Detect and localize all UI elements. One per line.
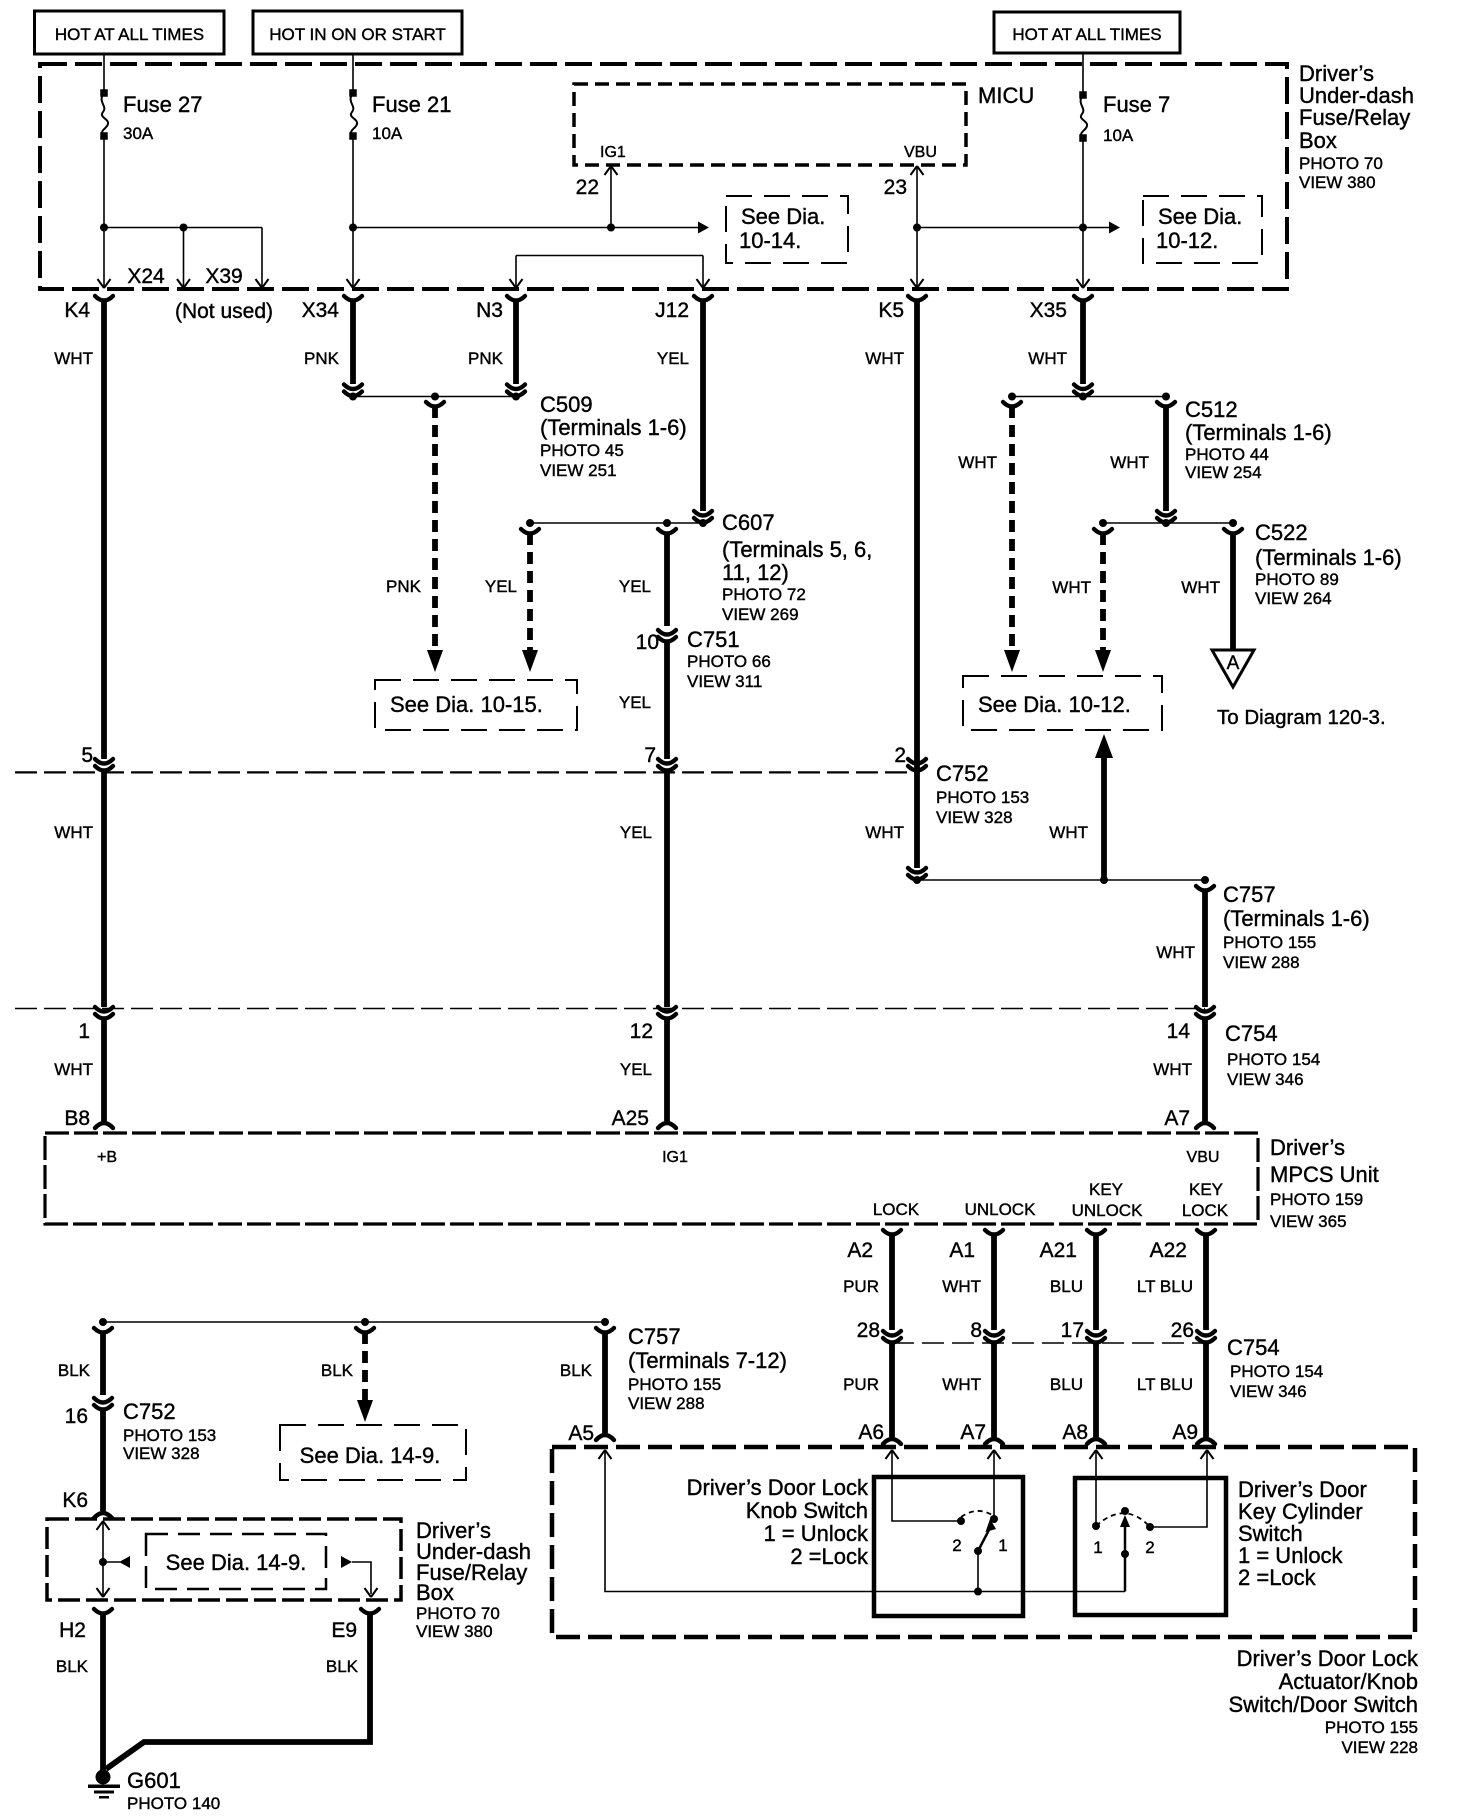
connector C754 pin 26 (1171, 1319, 1215, 1343)
svg-text:LOCK: LOCK (873, 1200, 920, 1219)
wire A25 trunk YEL (lower) (612, 1018, 676, 1130)
knob switch box (874, 1477, 1023, 1616)
svg-text:A2: A2 (847, 1239, 873, 1262)
svg-text:Driver’s Door Lock: Driver’s Door Lock (1237, 1646, 1419, 1671)
svg-text:1 = Unlock: 1 = Unlock (763, 1521, 869, 1546)
wire bridge N3-J12 (516, 256, 703, 287)
svg-text:PHOTO 70: PHOTO 70 (1299, 154, 1383, 173)
Driver's Door Lock Actuator box (dashed) (552, 1447, 1415, 1637)
svg-text:A22: A22 (1150, 1239, 1187, 1262)
fuse F27 (Fuse 27 30A) (100, 89, 202, 143)
svg-text:A6: A6 (858, 1421, 884, 1444)
wire PUR to A6 (843, 1342, 901, 1444)
svg-text:C607: C607 (722, 510, 775, 535)
connector C752 pin 5 (81, 744, 113, 771)
label: To Diagram 120-3. (1217, 706, 1386, 729)
svg-text:2: 2 (1145, 1538, 1154, 1557)
label: G601 PHOTO 140 (127, 1768, 220, 1813)
label: LOCK (873, 1200, 920, 1219)
off-page reference triangle A (1212, 650, 1254, 687)
svg-text:14: 14 (1167, 1020, 1191, 1043)
svg-text:PNK: PNK (304, 349, 340, 368)
svg-text:5: 5 (81, 744, 93, 767)
arrow from See Dia 14-9 to K6 wire (103, 1556, 130, 1568)
svg-text:A1: A1 (949, 1239, 975, 1262)
wire C512 to C522 (WHT) (1110, 406, 1175, 523)
svg-text:IG1: IG1 (600, 144, 626, 161)
wire J12 trunk YEL (657, 300, 712, 523)
label: Driver's Door Lock Actuator/Knob Switch/Door Switch (1228, 1646, 1419, 1757)
arrow into See Dia. 14-9 (upper) (357, 1400, 373, 1422)
svg-text:Box: Box (1299, 128, 1337, 153)
connector C754 line (lower) (892, 1342, 1206, 1344)
key switch throw arc (1096, 1513, 1150, 1527)
label: 22 (576, 176, 599, 199)
svg-text:C512: C512 (1185, 397, 1238, 422)
svg-text:B8: B8 (64, 1107, 90, 1130)
wire H2 BLK to ground (56, 1613, 103, 1770)
power source label: HOT AT ALL TIMES (left) (35, 11, 225, 54)
svg-text:A7: A7 (1164, 1107, 1190, 1130)
pin E9 (331, 1609, 379, 1642)
key cylinder switch box (1075, 1478, 1226, 1615)
svg-text:C752: C752 (123, 1399, 176, 1424)
svg-text:WHT: WHT (54, 349, 93, 368)
svg-text:See Dia.: See Dia. (1158, 204, 1242, 229)
svg-text:28: 28 (857, 1319, 880, 1342)
wire X34 trunk PNK (304, 300, 362, 396)
svg-text:Actuator/Knob: Actuator/Knob (1279, 1669, 1418, 1694)
wire K4-B8 trunk WHT (mid) (54, 772, 104, 1007)
connector C754 pin 8 (970, 1319, 1003, 1343)
svg-text:VBU: VBU (904, 144, 937, 161)
wire YEL trunk (mid) (620, 772, 667, 1007)
wire VBU to K5 (pin 23) (911, 166, 924, 288)
wire from HOT AT ALL TIMES to fuse 7 (1082, 53, 1084, 95)
svg-text:8: 8 (970, 1319, 982, 1342)
svg-text:WHT: WHT (54, 823, 93, 842)
wire E9 BLK to ground (106, 1613, 370, 1769)
svg-text:VIEW 328: VIEW 328 (936, 808, 1013, 827)
fuse F7 (Fuse 7 10A) (1079, 91, 1170, 145)
svg-text:YEL: YEL (620, 823, 652, 842)
label: C607 (Terminals 5,6,11,12) PHOTO 72 VIEW 269 (722, 510, 872, 624)
connector C509 junction line (349, 393, 520, 407)
arrow into See Dia. 10-15 (left) (427, 650, 443, 672)
svg-text:WHT: WHT (942, 1375, 981, 1394)
svg-text:WHT: WHT (958, 453, 997, 472)
See Dia. 10-12. box (top) (1143, 196, 1262, 263)
svg-text:C522: C522 (1255, 520, 1308, 545)
pin A2 (MPCS) (847, 1230, 901, 1262)
svg-text:A5: A5 (568, 1422, 594, 1445)
svg-text:C757: C757 (628, 1324, 681, 1349)
wire A22 LT BLU upper (1137, 1234, 1206, 1330)
svg-text:LT BLU: LT BLU (1137, 1375, 1193, 1394)
label: UNLOCK (965, 1200, 1037, 1219)
svg-text:PHOTO 154: PHOTO 154 (1227, 1050, 1320, 1069)
svg-text:16: 16 (65, 1405, 88, 1428)
label: C757 (Terminals 1-6) PHOTO 155 VIEW 288 (1223, 882, 1370, 972)
label: C757 (Terminals 7-12) PHOTO 155 VIEW 288 (628, 1324, 787, 1413)
svg-text:PNK: PNK (468, 349, 504, 368)
svg-text:PHOTO 66: PHOTO 66 (687, 652, 771, 671)
svg-text:PHOTO 155: PHOTO 155 (1223, 933, 1316, 952)
svg-text:VIEW 251: VIEW 251 (540, 461, 617, 480)
door switch wire A5 internal (599, 1450, 1126, 1592)
arrow from See Dia 14-9 to E9 (341, 1556, 378, 1597)
connector C751 (pin 10) (636, 630, 676, 654)
arrow onto X35 (1077, 279, 1090, 288)
svg-text:2: 2 (894, 744, 906, 767)
svg-text:Fuse 7: Fuse 7 (1103, 92, 1170, 117)
svg-text:IG1: IG1 (662, 1149, 688, 1166)
svg-text:PHOTO 72: PHOTO 72 (722, 585, 806, 604)
power source label: HOT AT ALL TIMES (right) (994, 12, 1180, 53)
power source label: HOT IN ON OR START (253, 11, 462, 54)
wire K5 to C757 WHT (865, 823, 904, 842)
wire K5 junction to See Dia. 10-12 (917, 227, 1110, 229)
svg-text:BLK: BLK (56, 1657, 89, 1676)
pin H2 (59, 1609, 112, 1642)
connector C754 pin 14 (1167, 1007, 1214, 1043)
svg-text:See Dia. 14-9.: See Dia. 14-9. (166, 1550, 307, 1575)
wire C757 to C754 WHT (1156, 890, 1205, 1007)
svg-text:BLK: BLK (560, 1361, 593, 1380)
arrow onto X34 (347, 279, 360, 288)
label: 23 (884, 176, 907, 199)
svg-text:See Dia. 14-9.: See Dia. 14-9. (300, 1443, 441, 1468)
wire C512 to See Dia. 10-12 (WHT dashed) (958, 406, 1012, 650)
svg-text:VBU: VBU (1187, 1149, 1220, 1166)
label: IG1 pin (600, 144, 626, 161)
svg-text:VIEW 288: VIEW 288 (628, 1394, 705, 1413)
pin A1 (MPCS) (949, 1230, 1003, 1262)
svg-text:A8: A8 (1062, 1421, 1088, 1444)
svg-text:Fuse/Relay: Fuse/Relay (1299, 105, 1410, 130)
svg-text:WHT: WHT (942, 1277, 981, 1296)
svg-text:Knob Switch: Knob Switch (746, 1498, 868, 1523)
svg-text:YEL: YEL (620, 1060, 652, 1079)
connector C754 pin 17 (1061, 1319, 1105, 1343)
connector C512 junction line (1003, 393, 1175, 407)
svg-text:VIEW 328: VIEW 328 (123, 1444, 200, 1463)
knob switch throw arc (961, 1511, 992, 1517)
wire C751 to C752 YEL (619, 641, 667, 759)
Driver's MPCS Unit box (dashed) (45, 1133, 1258, 1224)
See Dia. 14-9. box (upper) (280, 1425, 466, 1480)
label: C512 (Terminals 1-6) PHOTO 44 VIEW 254 (1185, 397, 1332, 482)
wire BLK to C752-16 (58, 1328, 112, 1395)
label: VBU pin (904, 144, 937, 161)
svg-text:LOCK: LOCK (1182, 1201, 1229, 1220)
arrow A9 internal (1152, 1450, 1214, 1527)
svg-text:1: 1 (998, 1536, 1007, 1555)
arrow onto N3 (510, 279, 523, 288)
svg-text:WHT: WHT (1052, 578, 1091, 597)
key switch contacts (1092, 1522, 1155, 1557)
svg-text:VIEW 365: VIEW 365 (1270, 1212, 1347, 1231)
svg-text:(Not used): (Not used) (175, 300, 273, 323)
wire BLK to See Dia. 14-9 (dashed) (321, 1328, 374, 1400)
svg-text:PHOTO 44: PHOTO 44 (1185, 445, 1269, 464)
wire IG1 arrow (pin 22) (605, 166, 618, 228)
svg-text:7: 7 (644, 744, 656, 767)
svg-text:A7: A7 (960, 1421, 986, 1444)
wire fuse 27 to K4/X24/X39 branch (100, 136, 262, 286)
label: Driver's Door Lock Knob Switch (687, 1475, 869, 1569)
wire N3 trunk PNK (468, 300, 525, 396)
svg-text:YEL: YEL (619, 577, 651, 596)
svg-text:HOT IN ON OR START: HOT IN ON OR START (269, 25, 446, 44)
label: Driver's Under-dash Fuse/Relay Box (1299, 61, 1414, 192)
label: Driver's Under-dash Fuse/Relay Box PHOTO 70 VIEW 380 (lower) (416, 1518, 531, 1641)
label: C751 PHOTO 66 VIEW 311 (687, 627, 771, 691)
See Dia. 14-9. box (inside fuse box) (146, 1534, 326, 1589)
svg-text:BLU: BLU (1050, 1277, 1083, 1296)
label: IG1 pin (MPCS) (662, 1149, 688, 1166)
svg-text:(Terminals 5, 6,: (Terminals 5, 6, (722, 537, 872, 562)
svg-text:YEL: YEL (657, 349, 689, 368)
ground G601 (88, 1770, 120, 1799)
connector C752 divider line (15, 771, 917, 773)
knob switch contacts (952, 1515, 1007, 1555)
svg-text:(Terminals 1-6): (Terminals 1-6) (540, 415, 687, 440)
svg-text:WHT: WHT (1049, 823, 1088, 842)
svg-text:PHOTO 153: PHOTO 153 (123, 1426, 216, 1445)
label: C754 PHOTO 154 VIEW 346 (divider) (1225, 1021, 1320, 1089)
svg-text:2 =Lock: 2 =Lock (790, 1544, 869, 1569)
svg-text:YEL: YEL (619, 693, 651, 712)
pin K4 (64, 296, 113, 322)
wire BLK to A5 (560, 1328, 614, 1445)
svg-text:Driver’s Door Lock: Driver’s Door Lock (687, 1475, 869, 1500)
svg-text:HOT AT ALL TIMES: HOT AT ALL TIMES (55, 25, 204, 44)
svg-text:KEY: KEY (1189, 1180, 1223, 1199)
wire K5 trunk WHT (865, 300, 926, 880)
svg-text:VIEW 380: VIEW 380 (1299, 173, 1376, 192)
svg-text:BLK: BLK (326, 1657, 359, 1676)
svg-text:Driver’s: Driver’s (1270, 1135, 1345, 1160)
See Dia. 10-14. box (726, 196, 848, 263)
svg-text:VIEW 346: VIEW 346 (1230, 1382, 1307, 1401)
svg-text:Fuse 27: Fuse 27 (123, 92, 203, 117)
svg-text:C754: C754 (1227, 1335, 1280, 1360)
connector C757 junction line (913, 876, 1214, 891)
svg-text:1: 1 (1093, 1538, 1102, 1557)
svg-text:Switch/Door Switch: Switch/Door Switch (1228, 1692, 1418, 1717)
connector C752 pin 2 (894, 744, 926, 771)
svg-text:N3: N3 (476, 299, 503, 322)
wire LT BLU to A9 (1137, 1342, 1215, 1444)
svg-text:WHT: WHT (54, 1060, 93, 1079)
arrow A6 internal (886, 1450, 960, 1521)
svg-text:PHOTO 155: PHOTO 155 (628, 1375, 721, 1394)
svg-text:22: 22 (576, 176, 599, 199)
wire fuse 21 to X34 and IG1 feed (349, 136, 702, 286)
arrow into See Dia. 10-12 (left) (1004, 650, 1020, 672)
label: VBU pin (MPCS) (1187, 1149, 1220, 1166)
knob switch common wire (974, 1551, 982, 1596)
label: X24 (127, 265, 165, 288)
svg-text:A21: A21 (1040, 1239, 1077, 1262)
svg-text:17: 17 (1061, 1319, 1084, 1342)
wire C509 to See Dia. 10-15 (PNK dashed) (386, 406, 435, 650)
label: C752 PHOTO 153 VIEW 328 (pin 16) (123, 1399, 216, 1463)
label: C509 (Terminals 1-6) PHOTO 45 VIEW 251 (540, 392, 687, 480)
svg-text:PHOTO 45: PHOTO 45 (540, 441, 624, 460)
wire C607 to See Dia. 10-15 (YEL dashed) (485, 533, 530, 650)
svg-text:WHT: WHT (1181, 578, 1220, 597)
svg-text:(Terminals 1-6): (Terminals 1-6) (1185, 420, 1332, 445)
svg-text:VIEW 228: VIEW 228 (1341, 1738, 1418, 1757)
arrow onto X24 (177, 279, 190, 288)
wire K6 BLK (62, 1409, 112, 1518)
label: (Not used) (175, 300, 273, 323)
svg-text:(Terminals 1-6): (Terminals 1-6) (1255, 545, 1402, 570)
svg-text:C754: C754 (1225, 1021, 1278, 1046)
svg-text:BLK: BLK (58, 1361, 91, 1380)
svg-text:VIEW 264: VIEW 264 (1255, 589, 1332, 608)
svg-text:PUR: PUR (843, 1375, 879, 1394)
pin X34 (302, 296, 362, 322)
connector C752 pin 7 (644, 744, 676, 771)
svg-text:2: 2 (952, 1536, 961, 1555)
label: C754 PHOTO 154 VIEW 346 (lower) (1227, 1335, 1323, 1401)
wire C522 to reference A (WHT) (1181, 533, 1233, 650)
wire K4 trunk WHT (54, 300, 104, 759)
wire inside fuse box K6-H2 (97, 1521, 110, 1597)
svg-text:C751: C751 (687, 627, 740, 652)
arrow into See Dia. 10-12 (right) (1095, 650, 1111, 672)
svg-text:1: 1 (78, 1020, 90, 1043)
svg-text:C509: C509 (540, 392, 593, 417)
connector C607 junction line (521, 519, 707, 534)
svg-text:Box: Box (416, 1580, 454, 1605)
svg-text:See Dia. 10-15.: See Dia. 10-15. (390, 692, 543, 717)
pin N3 (476, 296, 525, 322)
svg-text:To Diagram 120-3.: To Diagram 120-3. (1217, 706, 1386, 729)
svg-text:X24: X24 (127, 265, 165, 288)
svg-text:H2: H2 (59, 1619, 86, 1642)
wire up-arrow into See Dia. 10-12 (WHT) (1049, 734, 1113, 880)
arrow into See Dia. 10-14 (698, 222, 709, 234)
svg-text:PHOTO 159: PHOTO 159 (1270, 1190, 1363, 1209)
svg-text:PHOTO 154: PHOTO 154 (1230, 1362, 1323, 1381)
svg-text:E9: E9 (331, 1619, 357, 1642)
svg-text:LT BLU: LT BLU (1137, 1277, 1193, 1296)
wire from HOT IN ON OR START to fuse 21 (352, 54, 354, 93)
svg-text:Fuse 21: Fuse 21 (372, 92, 452, 117)
svg-text:WHT: WHT (1110, 453, 1149, 472)
svg-text:BLU: BLU (1050, 1375, 1083, 1394)
svg-text:10-14.: 10-14. (739, 228, 801, 253)
wire fuse 7 to X35 (1079, 138, 1087, 286)
wire ground bus line (99, 1318, 609, 1326)
svg-text:PHOTO 155: PHOTO 155 (1325, 1718, 1418, 1737)
wire A2 PUR upper (843, 1234, 892, 1330)
pin J12 (655, 296, 712, 322)
svg-text:K6: K6 (62, 1489, 88, 1512)
svg-text:PHOTO 70: PHOTO 70 (416, 1604, 500, 1623)
arrow onto X39 (256, 279, 269, 288)
svg-text:UNLOCK: UNLOCK (1072, 1201, 1144, 1220)
svg-text:12: 12 (630, 1020, 653, 1043)
label: Driver's Door Key Cylinder Switch (1238, 1477, 1367, 1590)
knob switch lever (974, 1519, 996, 1555)
svg-text:K5: K5 (878, 299, 904, 322)
Driver's Under-dash Fuse/Relay Box 2 (dashed) (47, 1519, 401, 1600)
connector C754 pin 28 (857, 1319, 901, 1343)
svg-text:MPCS Unit: MPCS Unit (1270, 1162, 1379, 1187)
label: C752 PHOTO 153 VIEW 328 (divider) (936, 761, 1029, 827)
wire A7 trunk WHT (lower) (1153, 1018, 1214, 1130)
svg-text:MICU: MICU (978, 83, 1034, 108)
svg-text:HOT AT ALL TIMES: HOT AT ALL TIMES (1012, 25, 1161, 44)
svg-text:10A: 10A (372, 124, 403, 143)
label: X39 (205, 265, 242, 288)
svg-text:A25: A25 (612, 1107, 649, 1130)
svg-text:PNK: PNK (386, 577, 422, 596)
wire C607 to C751 YEL trunk (619, 533, 667, 626)
wire X35 trunk WHT (1028, 300, 1092, 396)
See Dia. 10-15. box (375, 680, 577, 730)
label: KEY UNLOCK (1072, 1180, 1144, 1220)
svg-text:WHT: WHT (1153, 1060, 1192, 1079)
wire A1 WHT upper (942, 1234, 994, 1330)
svg-text:(Terminals 7-12): (Terminals 7-12) (628, 1348, 787, 1373)
svg-text:BLK: BLK (321, 1361, 354, 1380)
label: +B pin (97, 1149, 117, 1166)
pin K5 (878, 296, 926, 322)
svg-text:PHOTO 89: PHOTO 89 (1255, 570, 1339, 589)
svg-text:K4: K4 (64, 299, 90, 322)
svg-text:VIEW 288: VIEW 288 (1223, 953, 1300, 972)
svg-text:WHT: WHT (865, 823, 904, 842)
wire from HOT AT ALL TIMES to fuse 27 (103, 54, 105, 93)
svg-text:PUR: PUR (843, 1277, 879, 1296)
connector C752 pin 16 (65, 1398, 112, 1428)
Driver's Under-dash Fuse/Relay Box (dashed enclosure) (40, 64, 1287, 289)
connector C522 junction line (1094, 519, 1242, 534)
svg-text:X34: X34 (302, 299, 340, 322)
label: C522 (Terminals 1-6) PHOTO 89 VIEW 264 (1255, 520, 1402, 608)
arrow onto J12 (697, 279, 710, 288)
svg-text:YEL: YEL (485, 577, 517, 596)
arrow onto K4 (98, 279, 111, 288)
wire B8 trunk WHT (lower) (54, 1018, 113, 1130)
pin A22 (MPCS) (1150, 1230, 1215, 1262)
label: Driver's MPCS Unit (1270, 1135, 1379, 1231)
svg-text:WHT: WHT (865, 349, 904, 368)
svg-text:10: 10 (636, 631, 659, 654)
svg-text:See Dia.: See Dia. (741, 204, 825, 229)
See Dia. 10-12. box (middle) (963, 676, 1162, 730)
svg-text:J12: J12 (655, 299, 689, 322)
svg-text:23: 23 (884, 176, 907, 199)
svg-text:VIEW 254: VIEW 254 (1185, 463, 1262, 482)
label: MICU (978, 83, 1034, 108)
svg-text:PHOTO 153: PHOTO 153 (936, 788, 1029, 807)
svg-text:VIEW 269: VIEW 269 (722, 605, 799, 624)
arrow into See Dia. 10-12 (top) (1109, 222, 1120, 234)
wire A21 BLU upper (1050, 1234, 1096, 1330)
svg-text:10A: 10A (1103, 126, 1134, 145)
wire WHT to A7 (942, 1342, 1003, 1444)
fuse F21 (Fuse 21 10A) (349, 89, 451, 143)
svg-text:11, 12): 11, 12) (722, 560, 789, 585)
svg-text:UNLOCK: UNLOCK (965, 1200, 1037, 1219)
